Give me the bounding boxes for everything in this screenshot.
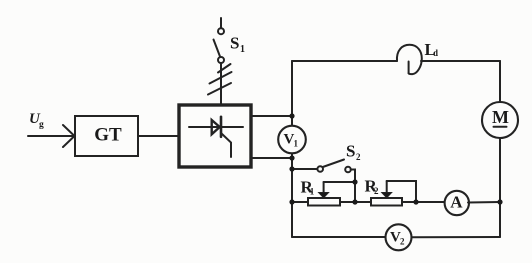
svg-text:GT: GT: [94, 125, 122, 146]
switch S2 left terminal: [317, 166, 323, 172]
wire R1 wiper bar: [324, 181, 355, 183]
wire top line right of Ld: [421, 60, 500, 62]
svg-text:A: A: [450, 192, 463, 211]
label R1: [301, 178, 315, 197]
voltmeter V1: [278, 126, 306, 154]
thyristor triangle: [212, 120, 220, 134]
label R2: [365, 177, 380, 197]
wire S2 right terminal down to main line: [351, 170, 355, 203]
ammeter A: [445, 191, 469, 215]
switch S1 top terminal: [218, 28, 224, 34]
thyristor cathode bar: [220, 117, 223, 137]
svg-text:S: S: [346, 142, 355, 161]
wire Ug input line with arrowhead into GT: [28, 125, 75, 147]
switch S1 blade: [214, 40, 221, 57]
label Ld: [425, 40, 439, 59]
wire main line: [292, 201, 444, 203]
node Ug input label: [29, 111, 44, 130]
thyristor symbol anode-cathode line: [189, 126, 243, 128]
junction dots: [289, 113, 502, 204]
svg-text:S: S: [230, 33, 239, 52]
svg-text:2: 2: [400, 237, 405, 247]
wire top line left of Ld: [292, 60, 397, 62]
block thyristor rectifier box: [179, 105, 251, 167]
svg-text:1: 1: [310, 187, 315, 197]
inductor Ld: [397, 45, 422, 74]
svg-text:d: d: [433, 48, 438, 58]
svg-text:1: 1: [240, 44, 245, 55]
switch S2 blade: [323, 160, 344, 168]
svg-text:M: M: [492, 107, 509, 127]
svg-text:2: 2: [374, 186, 379, 196]
switch S2 right terminal: [345, 167, 351, 173]
svg-text:1: 1: [294, 139, 299, 149]
label S1: [230, 33, 245, 55]
voltmeter V2: [386, 224, 412, 250]
wire GT output to rectifier box: [138, 135, 179, 137]
block GT trigger unit U1: [75, 116, 138, 156]
wire right rail lower: [499, 138, 501, 237]
wire R2 wiper bar down to main line: [387, 181, 416, 202]
rheostat R1 body: [308, 198, 340, 206]
switch S1 top stub: [220, 18, 222, 28]
wire rectifier top output: [251, 115, 292, 117]
svg-text:2: 2: [356, 152, 361, 162]
wire right rail upper: [499, 61, 501, 102]
wire S1 to rectifier box: [220, 63, 222, 105]
thyristor gate lead: [221, 133, 231, 157]
label S2: [346, 142, 361, 162]
wire bottom line right: [412, 236, 501, 238]
rheostat R2 wiper: [386, 181, 388, 193]
rheostat R1 wiper: [323, 182, 325, 193]
svg-text:g: g: [39, 120, 44, 130]
wire main line after A: [468, 201, 500, 204]
switch S1 bottom terminal: [218, 57, 224, 63]
three-phase slash marks: [208, 64, 232, 95]
wire left rail upper: [291, 61, 293, 116]
wire bottom line left: [292, 236, 386, 238]
wire rectifier bottom output: [251, 157, 292, 159]
motor M: [482, 102, 518, 138]
switch S2 wire from rail: [292, 168, 317, 170]
rheostat R2 body: [371, 198, 402, 206]
wire left rail through V1: [291, 116, 293, 237]
